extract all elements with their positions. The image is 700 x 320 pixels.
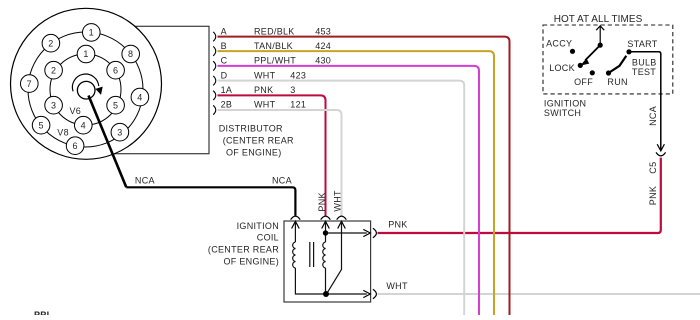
svg-text:PNK: PNK <box>254 85 273 95</box>
svg-text:RUN: RUN <box>607 77 627 87</box>
svg-text:IGNITION: IGNITION <box>544 98 586 108</box>
svg-text:LOCK: LOCK <box>549 63 575 73</box>
svg-text:2B: 2B <box>221 100 233 110</box>
svg-text:PPL: PPL <box>34 310 53 315</box>
svg-text:COIL: COIL <box>257 233 279 243</box>
svg-text:D: D <box>221 70 228 80</box>
svg-text:ACCY: ACCY <box>546 38 572 48</box>
svg-text:5: 5 <box>38 120 43 130</box>
svg-text:6: 6 <box>72 141 77 151</box>
svg-text:NCA: NCA <box>648 106 658 126</box>
svg-text:V8: V8 <box>57 128 69 138</box>
svg-text:TAN/BLK: TAN/BLK <box>254 41 293 51</box>
svg-text:6: 6 <box>113 65 118 75</box>
svg-text:8: 8 <box>128 49 133 59</box>
svg-text:1: 1 <box>89 28 94 38</box>
svg-text:PNK: PNK <box>648 186 658 205</box>
svg-text:430: 430 <box>315 56 331 66</box>
svg-text:V6: V6 <box>70 106 82 116</box>
svg-text:WHT: WHT <box>386 281 408 291</box>
svg-text:PNK: PNK <box>388 220 407 230</box>
svg-text:2: 2 <box>51 65 56 75</box>
svg-text:A: A <box>221 26 227 36</box>
svg-text:IGNITION: IGNITION <box>237 221 279 231</box>
svg-text:NCA: NCA <box>272 176 292 186</box>
svg-text:3: 3 <box>117 127 122 137</box>
svg-text:2: 2 <box>48 38 53 48</box>
svg-text:HOT AT ALL TIMES: HOT AT ALL TIMES <box>554 14 643 25</box>
svg-text:PNK: PNK <box>317 192 327 211</box>
svg-text:424: 424 <box>315 41 331 51</box>
svg-text:5: 5 <box>113 100 118 110</box>
svg-text:1: 1 <box>83 49 88 59</box>
svg-text:PPL/WHT: PPL/WHT <box>254 56 296 66</box>
svg-text:NCA: NCA <box>135 176 155 186</box>
svg-text:(CENTER REAR: (CENTER REAR <box>223 136 294 146</box>
svg-text:121: 121 <box>290 100 306 110</box>
svg-text:WHT: WHT <box>333 190 343 212</box>
svg-text:OFF: OFF <box>574 77 593 87</box>
svg-text:START: START <box>627 39 657 49</box>
svg-text:3: 3 <box>290 85 295 95</box>
svg-text:423: 423 <box>290 70 306 80</box>
svg-text:BULB: BULB <box>632 57 657 67</box>
svg-text:C: C <box>221 56 228 66</box>
svg-text:4: 4 <box>137 92 142 102</box>
svg-text:WHT: WHT <box>254 70 276 80</box>
svg-text:OF ENGINE): OF ENGINE) <box>223 256 279 266</box>
svg-text:TEST: TEST <box>632 67 656 77</box>
svg-text:SWITCH: SWITCH <box>544 108 581 118</box>
svg-text:DISTRIBUTOR: DISTRIBUTOR <box>219 124 283 134</box>
svg-text:4: 4 <box>81 120 86 130</box>
svg-text:B: B <box>221 41 227 51</box>
svg-text:WHT: WHT <box>254 100 276 110</box>
svg-text:3: 3 <box>51 100 56 110</box>
svg-text:OF ENGINE): OF ENGINE) <box>226 147 282 157</box>
svg-text:(CENTER REAR: (CENTER REAR <box>208 245 279 255</box>
svg-text:C5: C5 <box>648 162 658 174</box>
svg-text:453: 453 <box>315 26 331 36</box>
svg-text:7: 7 <box>27 79 32 89</box>
svg-text:1A: 1A <box>221 85 233 95</box>
svg-text:RED/BLK: RED/BLK <box>254 26 295 36</box>
